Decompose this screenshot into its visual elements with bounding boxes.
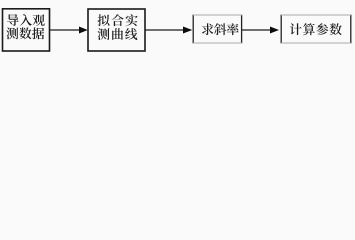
box B3 求斜率 (193, 15, 242, 44)
text 测曲线 (98, 28, 110, 40)
text 求斜率 (202, 23, 214, 35)
text 测数据 (6, 28, 18, 40)
box B4 计算参数 (281, 15, 351, 44)
text 计算参数 (290, 23, 302, 35)
wire arrow A2 (145, 27, 192, 34)
wire arrow A3 (242, 27, 279, 34)
text 拟合实 (98, 14, 110, 26)
wire arrow A1 (50, 27, 88, 34)
box B2 拟合实测曲线 (88, 9, 145, 51)
text 导入观 (7, 14, 19, 26)
box B1 导入观测数据 (3, 9, 50, 51)
